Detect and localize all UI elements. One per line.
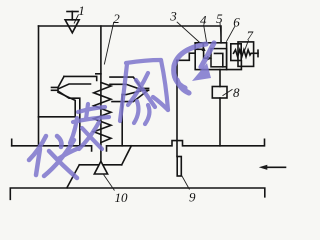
svg-text:3: 3: [169, 9, 177, 24]
svg-text:8: 8: [233, 85, 240, 100]
svg-text:7: 7: [247, 28, 254, 43]
svg-text:10: 10: [115, 190, 129, 205]
svg-text:2: 2: [113, 11, 120, 26]
svg-text:6: 6: [233, 15, 240, 30]
svg-text:4: 4: [200, 13, 207, 28]
svg-text:9: 9: [189, 190, 196, 205]
svg-text:1: 1: [78, 3, 85, 18]
svg-text:5: 5: [216, 11, 223, 26]
